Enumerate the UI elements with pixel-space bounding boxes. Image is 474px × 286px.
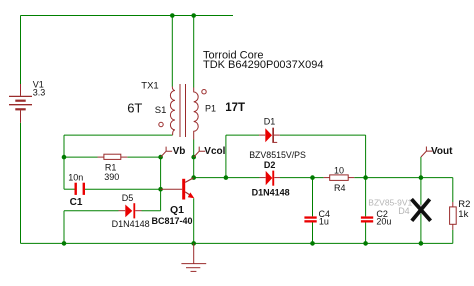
svg-text:D1: D1 <box>264 117 276 127</box>
svg-text:S1: S1 <box>155 105 167 116</box>
svg-text:TDK B64290P0037X094: TDK B64290P0037X094 <box>203 59 323 71</box>
svg-text:Vb: Vb <box>173 146 186 157</box>
svg-text:Q1: Q1 <box>170 204 184 216</box>
svg-text:Vcol: Vcol <box>204 146 225 157</box>
svg-text:C1: C1 <box>70 197 83 208</box>
svg-text:10n: 10n <box>68 173 83 183</box>
svg-text:390: 390 <box>104 172 119 182</box>
svg-text:BZV8515V/PS: BZV8515V/PS <box>249 150 306 160</box>
svg-text:17T: 17T <box>225 102 245 114</box>
svg-text:D5: D5 <box>122 193 134 203</box>
svg-text:P1: P1 <box>205 103 216 113</box>
svg-text:1u: 1u <box>319 217 329 227</box>
svg-text:20u: 20u <box>376 217 391 227</box>
svg-text:6T: 6T <box>127 100 142 115</box>
svg-text:BC817-40: BC817-40 <box>152 216 193 226</box>
svg-text:Vout: Vout <box>431 146 453 157</box>
svg-text:D1N4148: D1N4148 <box>112 219 150 229</box>
svg-text:R4: R4 <box>334 183 346 193</box>
svg-text:TX1: TX1 <box>141 80 158 91</box>
svg-text:D2: D2 <box>264 160 276 170</box>
svg-text:D4: D4 <box>398 206 410 216</box>
svg-text:3.3: 3.3 <box>33 87 46 97</box>
svg-text:1k: 1k <box>458 209 468 220</box>
svg-text:D1N4148: D1N4148 <box>252 188 290 198</box>
svg-text:10: 10 <box>334 166 344 176</box>
